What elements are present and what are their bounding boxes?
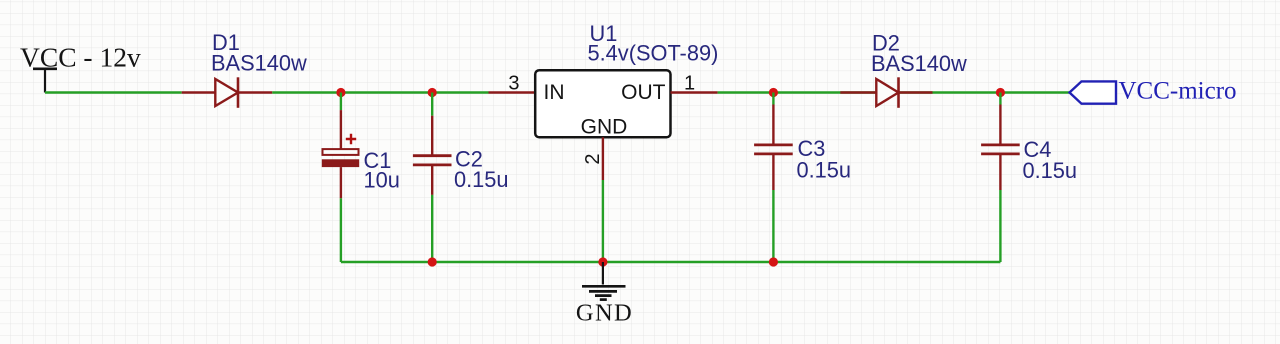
VCC net symbol <box>33 69 57 93</box>
junction at C3 bottom <box>769 257 778 266</box>
capacitor C2 <box>413 93 452 263</box>
wire D1 to U1 pin3 <box>272 91 488 93</box>
U1 pin 3 stub <box>489 91 536 93</box>
wire U1 pin1 to flag VCC-micro <box>718 91 1070 93</box>
svg-text:VCC-micro: VCC-micro <box>1119 78 1237 105</box>
junction at C1 top <box>336 88 345 97</box>
ground rail wire <box>341 261 1001 263</box>
svg-text:0.15u: 0.15u <box>454 167 509 192</box>
junction at C2 bottom <box>428 257 437 266</box>
capacitor C1 <box>322 93 359 263</box>
wire U1 pin2 to ground rail <box>602 180 604 262</box>
junction at C3 top <box>769 88 778 97</box>
svg-text:GND: GND <box>576 300 633 327</box>
U1 pin 1 stub <box>671 91 718 93</box>
svg-text:3: 3 <box>508 73 519 95</box>
op-amp U1 body <box>535 70 670 137</box>
wire VCC to D1 <box>45 91 182 93</box>
U1 pin 2 stub <box>602 137 604 180</box>
junction at C2 top <box>428 88 437 97</box>
svg-text:IN: IN <box>544 81 565 104</box>
svg-text:5.4v(SOT-89): 5.4v(SOT-89) <box>588 41 719 66</box>
svg-text:1: 1 <box>684 73 695 95</box>
junction at C4 top <box>996 88 1005 97</box>
svg-text:BAS140w: BAS140w <box>871 51 967 76</box>
svg-text:BAS140w: BAS140w <box>211 51 307 76</box>
capacitor C3 <box>754 93 793 263</box>
ground symbol <box>582 262 626 300</box>
svg-text:OUT: OUT <box>621 81 666 104</box>
svg-text:10u: 10u <box>364 168 400 193</box>
svg-text:0.15u: 0.15u <box>797 157 852 182</box>
svg-text:0.15u: 0.15u <box>1023 158 1078 183</box>
junction at GND <box>598 257 607 266</box>
capacitor C4 <box>981 93 1020 263</box>
diode D2 <box>840 77 932 108</box>
port flag VCC-micro <box>1070 81 1117 103</box>
svg-text:GND: GND <box>581 116 628 139</box>
diode D1 <box>182 77 273 108</box>
svg-text:2: 2 <box>582 153 604 164</box>
